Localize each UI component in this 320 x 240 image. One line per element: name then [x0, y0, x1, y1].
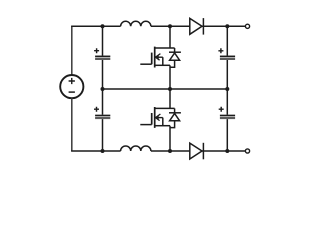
wire Q2 source to bottom rail [169, 126, 171, 151]
diode D2 [190, 143, 204, 160]
wire C1 top lead [102, 26, 104, 55]
wire Q2 drain feed [169, 89, 171, 108]
wire top-left vertical (source positive lead up to top rail) [71, 26, 73, 75]
V1 plus sign [69, 78, 75, 84]
node bottom rail / C2 junction [101, 149, 105, 153]
wire C2 bottom lead [102, 119, 104, 151]
wire top rail left segment [71, 25, 121, 27]
node top rail / Q1 drain junction [168, 24, 172, 28]
capacitor C3 [220, 55, 235, 57]
wire Q1 source to mid rail [169, 65, 171, 89]
terminal output+ [245, 24, 249, 28]
node mid rail / C3-C4 junction [225, 87, 229, 91]
C3 plus label [218, 48, 223, 53]
node bottom rail / Q2 source junction [168, 149, 172, 153]
wire C3 bottom lead to mid rail and C4 top lead [226, 60, 228, 115]
wire bottom rail middle segment [151, 150, 190, 152]
V1 minus sign [69, 91, 75, 93]
inductor L2 [121, 146, 151, 151]
voltage source V1 [60, 75, 83, 98]
wire Q1 drain feed [169, 26, 171, 48]
wire bottom rail left segment [71, 150, 121, 152]
diode D1 [190, 18, 204, 34]
wire C3 top lead [226, 26, 228, 55]
node mid rail / Q1-Q2 junction [168, 87, 172, 91]
wire top rail right segment [202, 25, 245, 27]
transistor Q2 (MOSFET) [140, 107, 174, 128]
wire top rail middle segment [151, 25, 190, 27]
node mid rail / C1-C2 junction [101, 87, 105, 91]
transistor Q1 (MOSFET) [140, 47, 174, 68]
inductor L1 [121, 21, 151, 26]
terminal output- [245, 149, 249, 153]
wire C4 bottom lead [226, 119, 228, 151]
wire mid rail [103, 88, 228, 90]
capacitor C2 [95, 114, 110, 116]
node top rail / C3 junction [225, 24, 229, 28]
C4 plus label [219, 107, 224, 112]
capacitor C1 [95, 55, 110, 57]
wire source bottom lead down to bottom rail [71, 98, 73, 151]
wire bottom rail right segment [202, 150, 245, 152]
node bottom rail / C4 junction [225, 149, 229, 153]
node top rail / C1 junction [101, 24, 105, 28]
diode Q1 body diode [169, 48, 181, 67]
wire C1 bottom lead to mid rail and C2 top lead [102, 60, 104, 115]
C2 plus label [94, 107, 99, 112]
capacitor C4 [220, 114, 235, 116]
diode Q2 body diode [169, 108, 181, 127]
C1 plus label [94, 48, 99, 53]
